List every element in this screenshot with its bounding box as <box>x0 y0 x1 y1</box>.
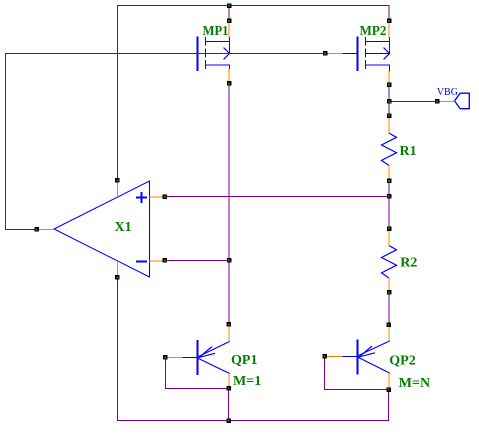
transistor MP1 <box>198 38 230 71</box>
pin stub MP2 drain <box>388 71 390 85</box>
wire op-amp output <box>6 229 38 231</box>
junction plus net tap <box>387 194 392 199</box>
wire R2 bottom to QP2 <box>388 293 390 325</box>
svg-text:X1: X1 <box>115 220 132 235</box>
pin stub QP2 base <box>327 356 343 358</box>
transistor QP1 <box>182 341 230 374</box>
junction op-amp minus pin <box>163 258 168 263</box>
svg-text:R1: R1 <box>400 144 417 159</box>
svg-text:VBG: VBG <box>437 87 458 98</box>
svg-text:MP2: MP2 <box>360 24 387 39</box>
junction bottom rail QP1 <box>226 419 231 424</box>
wire plus input net <box>165 196 389 198</box>
junction R2 top pin <box>387 227 392 232</box>
op-amp X1 <box>54 181 150 277</box>
wire MP2 drain to R1 <box>388 85 390 117</box>
pin stub QP2 emitter <box>388 327 390 342</box>
junction op-amp power top pin <box>115 178 120 183</box>
wire left rail lower <box>117 278 119 421</box>
pin stub MP1 drain <box>228 69 230 84</box>
pin stub MP2 gate <box>327 53 342 55</box>
pin stub op-amp minus <box>150 260 164 262</box>
wire top rail <box>118 5 390 7</box>
junction op-amp plus pin <box>163 195 168 200</box>
wire QP2 base tie <box>325 357 389 390</box>
wire R1 bottom to R2 top <box>388 181 390 229</box>
pin stub R1 top <box>388 118 390 134</box>
resistor R2 <box>382 246 397 279</box>
pin stub op-amp output <box>39 229 55 231</box>
wire feedback vertical <box>5 54 7 230</box>
transistor MP2 <box>342 38 390 72</box>
junction QP1 base pin <box>163 355 168 360</box>
junction R2 bottom pin <box>387 290 392 295</box>
svg-text:R2: R2 <box>400 256 417 271</box>
pin stub QP1 collector <box>228 374 230 389</box>
svg-text:QP2: QP2 <box>389 353 415 368</box>
junction minus net tap <box>227 258 232 263</box>
junction MP2 drain pin <box>387 83 392 88</box>
junction QP1 collector pin <box>227 386 232 391</box>
junction MP1 source pin <box>227 19 232 24</box>
wire QP2 collector riser <box>388 390 390 421</box>
wire QP1 base tie <box>166 358 229 389</box>
wire MP1 source column <box>228 6 230 22</box>
wire MP2 source column <box>388 6 390 22</box>
junction R1 bottom pin <box>387 179 392 184</box>
svg-text:MP1: MP1 <box>203 24 229 39</box>
pin stub MP2 source <box>388 21 390 38</box>
junction VBG terminal pin <box>435 99 440 104</box>
junction op-amp power bottom pin <box>115 275 120 280</box>
junction MP2 source pin <box>387 19 392 24</box>
pin stub op-amp power top <box>117 183 119 197</box>
terminal VBG <box>455 93 470 109</box>
pin stub VBG terminal <box>439 101 455 103</box>
svg-text:QP1: QP1 <box>231 353 257 368</box>
resistor R1 <box>382 133 397 166</box>
junction QP2 base pin <box>323 354 328 359</box>
svg-text:M=1: M=1 <box>233 374 261 389</box>
junction op-amp output pin <box>35 227 40 232</box>
pin stub MP1 source <box>228 21 230 38</box>
transistor QP2 <box>342 341 390 374</box>
junction QP2 emitter pin <box>387 323 392 328</box>
junction MP2 gate pin <box>323 51 328 56</box>
junction VBG tap <box>387 99 392 104</box>
pin stub QP1 emitter <box>228 326 230 342</box>
junction top rail MP1 <box>227 4 232 9</box>
wire QP1 collector to rail <box>228 389 230 421</box>
pin stub R2 bottom <box>388 278 390 293</box>
wire minus input net <box>165 260 229 262</box>
pin stub R1 bottom <box>388 166 390 182</box>
pin stub op-amp power bottom <box>117 262 119 278</box>
wire gate net horizontal <box>6 53 326 55</box>
svg-text:M=N: M=N <box>399 376 430 391</box>
pin stub op-amp plus <box>150 196 164 198</box>
pin stub R2 top <box>388 230 390 246</box>
junction QP1 emitter pin <box>227 322 232 327</box>
junction QP2 collector pin <box>386 388 391 393</box>
wire MP1 drain column <box>228 84 230 325</box>
wire VBG net <box>389 101 437 103</box>
junction R1 top pin <box>387 114 392 119</box>
wire bottom rail <box>118 420 389 422</box>
pin stub QP1 base <box>167 357 182 359</box>
pin stub QP2 collector <box>388 373 390 390</box>
junction MP1 drain pin <box>227 81 232 86</box>
wire left rail upper <box>117 6 119 181</box>
